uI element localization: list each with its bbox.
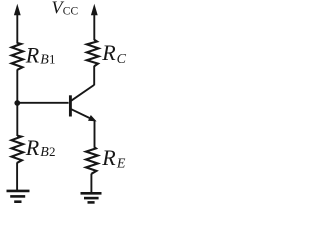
label VCC [52,0,79,18]
transistor Q1 base bar [69,95,72,116]
wire node to RB2 top [16,103,18,136]
wire RC bottom to collector corner [93,66,95,85]
wire emitter to RE top [94,121,96,148]
label RB1 [25,43,56,68]
svg-text:R: R [101,40,116,65]
VCC supply arrow right [91,4,98,40]
node B junction dot [14,100,20,106]
transistor Q1 collector lead [71,85,94,101]
label RC [101,40,126,67]
label RE [101,145,126,172]
ground right [81,193,102,202]
svg-text:1: 1 [49,52,56,67]
svg-text:R: R [101,145,116,170]
wire RB1 bottom to node [16,69,18,103]
resistor RB2 [12,136,24,163]
svg-text:B: B [40,145,49,160]
ground left [7,191,30,202]
wire base: node to transistor base [17,102,68,104]
wire RE bottom to ground [90,174,92,194]
svg-text:CC: CC [63,5,79,17]
resistor RC [87,40,99,66]
resistor RE [86,147,98,174]
svg-text:R: R [25,135,40,160]
transistor Q1 emitter lead with arrow [71,109,96,121]
svg-text:2: 2 [49,144,56,159]
label RB2 [25,135,56,160]
svg-text:E: E [116,157,126,172]
svg-text:B: B [40,53,49,68]
wire RB2 bottom to ground [16,162,18,190]
svg-text:C: C [117,52,127,67]
resistor RB1 [12,43,23,70]
svg-text:R: R [25,43,40,68]
VCC supply arrow left [14,4,21,44]
